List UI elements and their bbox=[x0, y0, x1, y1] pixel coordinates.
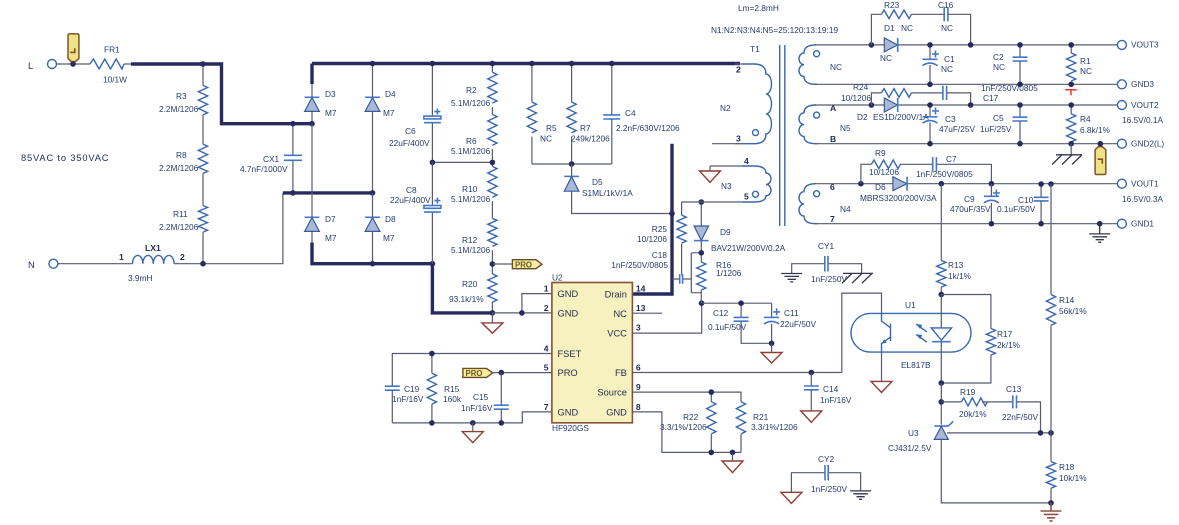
junction C2 bottom bbox=[1017, 82, 1023, 88]
svg-text:13: 13 bbox=[636, 303, 646, 313]
svg-text:C1: C1 bbox=[944, 54, 955, 64]
svg-text:5.1M/1206: 5.1M/1206 bbox=[451, 146, 491, 156]
svg-text:PRO: PRO bbox=[515, 260, 532, 269]
svg-text:GND2(L): GND2(L) bbox=[1131, 139, 1164, 149]
svg-text:HF920GS: HF920GS bbox=[552, 423, 589, 433]
capacitor C5 bbox=[980, 105, 1028, 144]
junction rail R15 bbox=[429, 420, 435, 426]
svg-text:2.2M/1206: 2.2M/1206 bbox=[159, 104, 199, 114]
svg-text:10/1W: 10/1W bbox=[103, 75, 127, 85]
svg-text:1uF/25V: 1uF/25V bbox=[980, 124, 1012, 134]
svg-text:3: 3 bbox=[736, 134, 741, 144]
svg-text:C3: C3 bbox=[945, 114, 956, 124]
svg-text:NC: NC bbox=[941, 23, 953, 33]
wire GND1 line bbox=[814, 223, 1118, 225]
svg-text:4.7nF/1000V: 4.7nF/1000V bbox=[240, 164, 288, 174]
capacitor C6 bbox=[389, 64, 441, 163]
svg-text:C11: C11 bbox=[784, 308, 799, 318]
svg-text:U3: U3 bbox=[908, 428, 919, 438]
svg-text:47uF/25V: 47uF/25V bbox=[939, 124, 975, 134]
svg-text:C7: C7 bbox=[946, 154, 957, 164]
wire DC- bus thick bbox=[312, 243, 492, 313]
node N terminal bbox=[28, 259, 58, 270]
wire U3 anode bbox=[941, 439, 1051, 503]
svg-text:10/1206: 10/1206 bbox=[637, 234, 667, 244]
svg-text:C17: C17 bbox=[983, 93, 999, 103]
wire N lead bbox=[58, 263, 133, 265]
resistor R12 bbox=[451, 218, 497, 255]
capacitor C11 bbox=[764, 303, 816, 343]
svg-text:N: N bbox=[28, 260, 35, 270]
svg-text:C15: C15 bbox=[473, 392, 489, 402]
wire R2-R6 bbox=[491, 107, 493, 114]
svg-text:10/1206: 10/1206 bbox=[841, 93, 871, 103]
capacitor C8 bbox=[390, 162, 441, 263]
junction C4 top bbox=[609, 61, 615, 67]
wire R11 to N bbox=[202, 232, 204, 264]
ground Source triangle bbox=[722, 452, 743, 472]
U2 pin numbers bbox=[544, 284, 646, 413]
junction C13 return bbox=[1038, 430, 1044, 436]
junction R20 bottom bbox=[490, 310, 496, 316]
wire R8-R11 bbox=[202, 174, 204, 206]
svg-text:1: 1 bbox=[544, 284, 549, 294]
svg-text:1: 1 bbox=[119, 252, 124, 262]
snubber R9 C7 bbox=[861, 148, 992, 184]
inductor LX1 bbox=[119, 243, 185, 283]
svg-text:CY1: CY1 bbox=[818, 241, 835, 251]
resistor R14 bbox=[1046, 184, 1087, 433]
resistor R13 bbox=[937, 184, 972, 295]
junction C5 top bbox=[1017, 102, 1023, 108]
capacitor CY1 bbox=[792, 241, 862, 284]
resistor R11 bbox=[159, 206, 208, 233]
optocoupler U1 EL817B bbox=[851, 295, 971, 384]
resistor R2 bbox=[451, 64, 497, 109]
ground CY1 chassis bbox=[842, 273, 873, 283]
svg-text:D1: D1 bbox=[884, 23, 895, 33]
junction R22 bottom bbox=[709, 450, 715, 456]
svg-text:C18: C18 bbox=[652, 250, 668, 260]
svg-text:9: 9 bbox=[636, 382, 641, 392]
svg-text:2k/1%: 2k/1% bbox=[997, 340, 1021, 350]
ground CY2 earth bbox=[850, 491, 871, 499]
capacitor C15 bbox=[461, 373, 509, 423]
svg-text:C8: C8 bbox=[406, 185, 417, 195]
junction snubber/D5 bbox=[569, 161, 575, 167]
resistor R3 bbox=[159, 64, 208, 115]
resistor R7 bbox=[567, 64, 610, 165]
svg-text:CY2: CY2 bbox=[818, 454, 835, 464]
svg-text:2: 2 bbox=[180, 252, 185, 262]
junction C3 top bbox=[927, 102, 933, 108]
svg-text:D8: D8 bbox=[385, 214, 396, 224]
svg-text:NC: NC bbox=[993, 62, 1005, 72]
wire GND2 line bbox=[814, 143, 1118, 145]
wire cathode to U3 bbox=[940, 383, 942, 425]
junction R7 top bbox=[569, 61, 575, 67]
svg-text:R7: R7 bbox=[580, 123, 591, 133]
svg-text:470uF/35V: 470uF/35V bbox=[950, 204, 991, 214]
svg-text:C16: C16 bbox=[938, 0, 954, 10]
wire GND3 line bbox=[814, 83, 1118, 85]
wire R12-R20 bbox=[491, 250, 493, 274]
wire VOUT1 line bbox=[814, 183, 1118, 185]
U2 pin names bbox=[558, 289, 628, 417]
svg-text:VOUT2: VOUT2 bbox=[1131, 100, 1159, 110]
junction D2 anode bbox=[869, 102, 875, 108]
svg-text:N1:N2:N3:N4:N5=25:120:13:19:19: N1:N2:N3:N4:N5=25:120:13:19:19 bbox=[711, 25, 838, 35]
svg-text:5.1M/1206: 5.1M/1206 bbox=[451, 194, 491, 204]
wire FSET bottom rail bbox=[392, 412, 552, 423]
wire GND to U2 pins bbox=[492, 294, 552, 313]
svg-text:2: 2 bbox=[736, 65, 741, 75]
junction Source/R22 bbox=[709, 389, 715, 395]
svg-text:249k/1206: 249k/1206 bbox=[571, 134, 610, 144]
junction CX1 top bbox=[290, 121, 296, 127]
svg-text:1nF/250V/0805: 1nF/250V/0805 bbox=[916, 169, 973, 179]
junction C10 top bbox=[1038, 181, 1044, 187]
junction C10 bottom bbox=[1038, 221, 1044, 227]
svg-text:22nF/50V: 22nF/50V bbox=[1002, 412, 1038, 422]
resistor R22 bbox=[660, 402, 716, 453]
svg-text:R9: R9 bbox=[875, 148, 886, 158]
junction D6 anode bbox=[858, 181, 864, 187]
svg-text:M7: M7 bbox=[325, 233, 337, 243]
junction C9 bottom bbox=[989, 221, 995, 227]
wire pin4 FSET line bbox=[392, 354, 552, 387]
resistor R5 bbox=[527, 64, 557, 165]
junction R1 top bbox=[1068, 42, 1074, 48]
junction C17 return bbox=[968, 102, 974, 108]
ground chassis R4 bbox=[1052, 144, 1082, 165]
diode D4 bbox=[365, 64, 396, 193]
diode D9 bbox=[694, 202, 786, 262]
junction C3 bottom bbox=[927, 141, 933, 147]
ground CY2 triangle bbox=[781, 492, 802, 503]
transformer T1 labels bbox=[711, 3, 838, 54]
junction C15 top bbox=[499, 370, 505, 376]
svg-text:N5: N5 bbox=[840, 123, 851, 133]
svg-text:R1: R1 bbox=[1080, 56, 1091, 66]
svg-text:CX1: CX1 bbox=[263, 154, 280, 164]
node GND3 terminal bbox=[1117, 79, 1154, 89]
resistor R19 bbox=[941, 387, 1012, 419]
svg-text:D4: D4 bbox=[385, 89, 396, 99]
svg-text:R24: R24 bbox=[853, 82, 869, 92]
junction R13 bottom bbox=[939, 292, 945, 298]
wire DC+ rail thick bbox=[312, 62, 740, 65]
junction C9 top bbox=[989, 181, 995, 187]
node VOUT2 terminal bbox=[1117, 100, 1163, 125]
resistor R4 bbox=[1067, 105, 1111, 144]
svg-text:R2: R2 bbox=[466, 85, 477, 95]
ground VCC triangle bbox=[761, 343, 782, 363]
svg-text:U1: U1 bbox=[905, 300, 916, 310]
svg-text:FR1: FR1 bbox=[104, 45, 120, 55]
junction rail C15 bbox=[499, 420, 505, 426]
resistor R25 bbox=[637, 202, 686, 275]
diode D7 bbox=[305, 214, 337, 244]
winding N5 secondary bbox=[799, 103, 851, 144]
svg-text:GND: GND bbox=[606, 407, 627, 417]
ground primary GND triangle bbox=[482, 313, 503, 333]
svg-text:Lm=2.8mH: Lm=2.8mH bbox=[738, 3, 779, 13]
svg-text:2.2M/1206: 2.2M/1206 bbox=[159, 163, 199, 173]
svg-text:NC: NC bbox=[1080, 66, 1092, 76]
label PRO1 bbox=[512, 260, 542, 270]
svg-text:3: 3 bbox=[636, 323, 641, 333]
svg-text:PRO: PRO bbox=[466, 369, 483, 378]
svg-text:C19: C19 bbox=[404, 384, 420, 394]
junction probe GND2 bbox=[1098, 141, 1104, 147]
node L terminal bbox=[28, 60, 57, 72]
svg-text:3.3/1%/1206: 3.3/1%/1206 bbox=[751, 422, 798, 432]
svg-text:R4: R4 bbox=[1080, 114, 1091, 124]
svg-text:R23: R23 bbox=[884, 0, 900, 10]
junction D9 top bbox=[699, 199, 705, 205]
svg-text:1nF/16V: 1nF/16V bbox=[820, 395, 852, 405]
node VOUT1 terminal bbox=[1117, 179, 1163, 205]
svg-text:U2: U2 bbox=[552, 273, 563, 283]
svg-text:16.5V/0.3A: 16.5V/0.3A bbox=[1122, 194, 1164, 204]
wire VCC node rail bbox=[702, 302, 772, 304]
svg-text:MBRS3200/200V/3A: MBRS3200/200V/3A bbox=[860, 193, 937, 203]
junction C2 top bbox=[1017, 42, 1023, 48]
capacitor CY2 bbox=[791, 454, 860, 494]
junction R4 top bbox=[1068, 102, 1074, 108]
shunt regulator U3 CJ431 bbox=[888, 421, 1051, 453]
svg-text:M7: M7 bbox=[383, 108, 395, 118]
svg-text:C12: C12 bbox=[713, 308, 729, 318]
wire pin5 PRO line bbox=[493, 372, 552, 374]
wire R3-R8 bbox=[202, 115, 204, 144]
junction R14 branch bbox=[1048, 181, 1054, 187]
junction gnd source bbox=[730, 450, 736, 456]
svg-text:D3: D3 bbox=[325, 89, 336, 99]
wire N thick bus bbox=[283, 191, 373, 194]
svg-text:56k/1%: 56k/1% bbox=[1059, 306, 1087, 316]
capacitor C3 bbox=[923, 105, 976, 144]
svg-text:R20: R20 bbox=[462, 279, 478, 289]
fuse resistor FR1 bbox=[90, 45, 127, 85]
winding N4 secondary bbox=[799, 182, 851, 224]
wire pin3 VCC line bbox=[632, 303, 701, 333]
red net tie bbox=[1065, 90, 1076, 96]
svg-text:N2: N2 bbox=[720, 103, 731, 113]
svg-text:93.1k/1%: 93.1k/1% bbox=[449, 294, 484, 304]
svg-text:2.2M/1206: 2.2M/1206 bbox=[159, 222, 199, 232]
junction PRO node bbox=[490, 261, 496, 267]
svg-text:R15: R15 bbox=[444, 384, 460, 394]
svg-text:GND3: GND3 bbox=[1131, 79, 1154, 89]
svg-text:PRO: PRO bbox=[558, 368, 578, 378]
junction R15 top bbox=[429, 351, 435, 357]
wire pin5 lead bbox=[682, 201, 744, 203]
ground CY1 earth bbox=[781, 274, 802, 282]
svg-text:6: 6 bbox=[636, 363, 641, 373]
svg-text:GND: GND bbox=[558, 289, 579, 299]
capacitor C10 bbox=[997, 184, 1049, 224]
svg-text:3.3/1%/1206: 3.3/1%/1206 bbox=[660, 422, 707, 432]
svg-text:D9: D9 bbox=[720, 227, 731, 237]
svg-text:4: 4 bbox=[744, 156, 749, 166]
svg-text:R6: R6 bbox=[466, 136, 477, 146]
junction N/D4/D8 bbox=[370, 190, 376, 196]
wire pin8 GND line bbox=[632, 412, 741, 453]
svg-text:S1ML/1kV/1A: S1ML/1kV/1A bbox=[582, 188, 633, 198]
junction FB/C14 bbox=[809, 370, 815, 376]
node GND2 terminal bbox=[1117, 139, 1164, 149]
svg-text:NC: NC bbox=[941, 64, 953, 74]
capacitor C9 bbox=[950, 184, 1000, 224]
svg-text:R12: R12 bbox=[462, 235, 478, 245]
probe J1 bbox=[68, 34, 79, 62]
op-amp U2 HF920GS body bbox=[552, 273, 633, 434]
svg-text:D2: D2 bbox=[857, 112, 868, 122]
snubber R23 C16 bbox=[871, 0, 970, 45]
svg-text:14: 14 bbox=[636, 284, 646, 294]
svg-text:VOUT3: VOUT3 bbox=[1131, 40, 1159, 50]
junction R5 top bbox=[529, 61, 535, 67]
svg-text:3.9mH: 3.9mH bbox=[128, 273, 152, 283]
svg-text:R17: R17 bbox=[997, 329, 1013, 339]
svg-text:N3: N3 bbox=[721, 181, 732, 191]
ground FSET triangle bbox=[462, 423, 483, 443]
junction ref divider bbox=[1048, 430, 1054, 436]
wire VOUT2 line bbox=[814, 104, 1118, 106]
wire pin9 Source line bbox=[632, 392, 741, 402]
junction C8 bottom bbox=[430, 261, 436, 267]
svg-text:NC: NC bbox=[540, 134, 552, 144]
svg-text:R19: R19 bbox=[960, 387, 976, 397]
diode D6 bbox=[860, 177, 937, 203]
svg-text:R21: R21 bbox=[753, 412, 769, 422]
svg-text:R10: R10 bbox=[462, 184, 478, 194]
junction R2 top bbox=[490, 61, 496, 67]
label PRO2 bbox=[463, 368, 493, 378]
junction D8 anode bbox=[370, 261, 376, 267]
diode D5 bbox=[564, 164, 672, 214]
svg-text:160k: 160k bbox=[443, 394, 462, 404]
svg-text:1nF/250V: 1nF/250V bbox=[811, 484, 847, 494]
wire VOUT3 line bbox=[814, 44, 1118, 46]
ground N3 triangle bbox=[700, 171, 721, 182]
wire snubber rail bbox=[532, 163, 612, 165]
junction R13 branch bbox=[939, 181, 945, 187]
capacitor C2 bbox=[993, 45, 1028, 84]
svg-text:C9: C9 bbox=[964, 194, 975, 204]
junction rail gnd bbox=[470, 420, 476, 426]
capacitor C19 bbox=[385, 384, 424, 423]
svg-text:Drain: Drain bbox=[605, 289, 627, 299]
svg-text:ES1D/200V/1A: ES1D/200V/1A bbox=[873, 112, 929, 122]
wire C6/C8 link bbox=[432, 161, 492, 163]
junction C6/C8 bbox=[430, 160, 436, 166]
junction R4 bottom bbox=[1068, 141, 1074, 147]
svg-text:4: 4 bbox=[544, 344, 549, 354]
svg-text:R25: R25 bbox=[652, 224, 668, 234]
resistor R21 bbox=[736, 402, 798, 453]
wire pin3 lead bbox=[712, 143, 744, 145]
svg-text:6.8k/1%: 6.8k/1% bbox=[1080, 125, 1111, 135]
ground opto emitter triangle bbox=[871, 352, 892, 392]
node GND1 terminal bbox=[1117, 219, 1154, 229]
wire N to bridge bbox=[174, 193, 283, 264]
svg-text:NC: NC bbox=[880, 53, 892, 63]
svg-text:22uF/400V: 22uF/400V bbox=[390, 195, 431, 205]
junction pin1/2 branch bbox=[519, 310, 525, 316]
capacitor C18 bbox=[611, 250, 701, 293]
svg-text:VCC: VCC bbox=[607, 329, 627, 339]
resistor R18 bbox=[1046, 433, 1087, 503]
junction GND1 earth bbox=[1097, 221, 1103, 227]
diode D3 bbox=[305, 84, 337, 124]
wire pin6 FB line bbox=[632, 293, 881, 372]
svg-text:T1: T1 bbox=[750, 44, 760, 54]
svg-text:8: 8 bbox=[636, 402, 641, 412]
junction D1 anode bbox=[869, 42, 875, 48]
junction R18 bottom bbox=[1048, 500, 1054, 506]
svg-text:1nF/16V: 1nF/16V bbox=[461, 403, 493, 413]
junction D9 cathode bbox=[699, 250, 705, 256]
svg-text:BAV21W/200V/0.2A: BAV21W/200V/0.2A bbox=[711, 243, 786, 253]
svg-text:M7: M7 bbox=[383, 233, 395, 243]
svg-text:2: 2 bbox=[544, 303, 549, 313]
ground C14 triangle bbox=[801, 411, 822, 422]
svg-text:D6: D6 bbox=[875, 182, 886, 192]
capacitor C12 bbox=[708, 303, 772, 343]
junction CX1 bottom bbox=[290, 190, 296, 196]
transformer core bbox=[780, 45, 785, 226]
junction C6 top bbox=[430, 61, 436, 67]
svg-text:R18: R18 bbox=[1059, 462, 1075, 472]
junction R19 branch bbox=[939, 399, 945, 405]
svg-text:C2: C2 bbox=[993, 52, 1004, 62]
junction C11 bottom bbox=[769, 341, 775, 347]
probe J2 bbox=[1095, 147, 1106, 175]
resistor R17 bbox=[941, 329, 1020, 384]
svg-text:5: 5 bbox=[744, 192, 749, 202]
svg-text:5: 5 bbox=[544, 363, 549, 373]
junction C1 bottom bbox=[927, 82, 933, 88]
svg-text:D7: D7 bbox=[325, 214, 336, 224]
svg-text:10k/1%: 10k/1% bbox=[1059, 473, 1087, 483]
diode D2 bbox=[857, 98, 929, 122]
wire D7 cathode riser bbox=[311, 124, 313, 218]
wire R20 bottom bbox=[491, 302, 493, 313]
resistor R15 bbox=[427, 354, 462, 423]
svg-text:C6: C6 bbox=[405, 126, 416, 136]
svg-text:EL817B: EL817B bbox=[901, 360, 931, 370]
ground bottom earth bbox=[1041, 503, 1062, 521]
resistor R8 bbox=[159, 144, 208, 173]
wire drain thick bbox=[632, 144, 672, 294]
wire L thick bus bbox=[131, 64, 312, 124]
svg-text:R22: R22 bbox=[683, 412, 699, 422]
resistor R16 bbox=[697, 260, 742, 303]
junction link/R6 bbox=[490, 160, 496, 166]
svg-text:7: 7 bbox=[830, 214, 835, 224]
svg-text:FSET: FSET bbox=[558, 349, 582, 359]
svg-text:FB: FB bbox=[615, 368, 627, 378]
diode D8 bbox=[365, 193, 396, 264]
svg-text:R13: R13 bbox=[948, 260, 964, 270]
svg-text:NC: NC bbox=[613, 309, 627, 319]
ground GND1 earth bbox=[1089, 224, 1110, 243]
svg-text:R8: R8 bbox=[176, 150, 187, 160]
junction R3 top bbox=[200, 61, 206, 67]
